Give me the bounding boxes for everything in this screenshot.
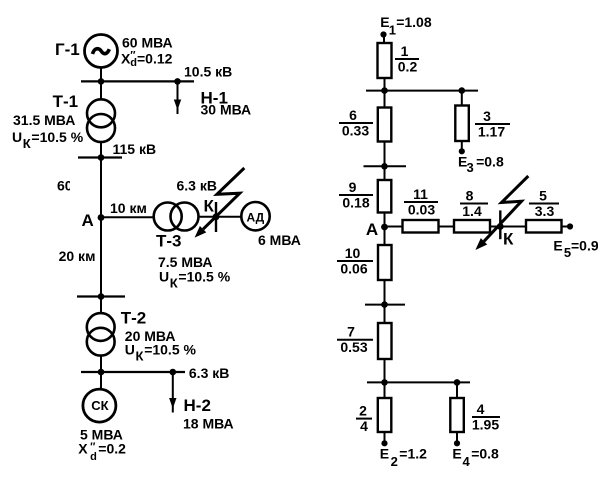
lightning bolt K arrowhead (right) — [475, 238, 487, 250]
svg-text:d: d — [90, 451, 97, 463]
value label 4/1.95 — [472, 401, 499, 433]
wire node A to transformer T-3 (10 km line) — [101, 216, 154, 218]
fraction bar 7/0.53 — [337, 339, 373, 341]
short-circuit point K tick (right) — [499, 210, 501, 239]
wire T-2 to bus 6.3kV — [100, 356, 102, 373]
source label E1=1.08 — [380, 14, 432, 38]
value label 6/0.33 — [342, 107, 369, 139]
fraction bar 1/0.2 — [395, 58, 419, 60]
junction dot bus/element3 — [459, 87, 466, 94]
wire element 3 to terminal E3 — [461, 141, 463, 152]
junction dot bus1/load H-1 — [174, 78, 181, 85]
source label E5=0.9 — [553, 238, 598, 261]
wire bus to element 6 — [384, 91, 386, 109]
svg-text:4: 4 — [477, 401, 485, 417]
svg-text:U: U — [12, 129, 22, 145]
svg-text:=0.12: =0.12 — [137, 51, 173, 67]
svg-text:10 км: 10 км — [110, 200, 147, 216]
wire resistor 1 to bus — [384, 77, 386, 92]
svg-text:=10.5 %: =10.5 % — [178, 268, 230, 284]
junction dot fault K (left) — [213, 213, 220, 220]
impedance element 4 (1.95) — [450, 398, 464, 432]
terminal dot E5 — [567, 223, 573, 229]
terminal dot E3 — [459, 148, 465, 154]
transformer T-2 upper circle — [87, 313, 115, 341]
wire element 7 to bottom bus — [384, 359, 386, 383]
svg-text:18 МВА: 18 МВА — [183, 416, 234, 432]
svg-text:11: 11 — [413, 186, 428, 202]
lightning bolt K (right) — [484, 176, 528, 241]
svg-text:6 МВА: 6 МВА — [258, 232, 301, 248]
svg-text:E: E — [553, 238, 562, 254]
node A junction dot (right) — [381, 224, 388, 231]
svg-text:К: К — [136, 349, 144, 364]
svg-text:=0.8: =0.8 — [476, 153, 504, 169]
lightning bolt K arrowhead (left) — [195, 226, 207, 238]
svg-text:2: 2 — [359, 403, 367, 419]
svg-text:1.17: 1.17 — [478, 124, 505, 140]
svg-text:9: 9 — [349, 179, 357, 195]
svg-text:115 кВ: 115 кВ — [113, 141, 157, 157]
load H-2 arrow shaft — [172, 372, 174, 413]
wire bus2 to synchronous condenser SK — [100, 372, 102, 389]
svg-text:=0.8: =0.8 — [471, 446, 499, 462]
junction dot bottom bus/element2 — [381, 379, 388, 386]
fraction bar 9/0.18 — [339, 194, 373, 196]
bus 6.3 kV lower — [81, 371, 185, 373]
svg-text:d: d — [130, 57, 137, 69]
svg-text:=10.5 %: =10.5 % — [144, 342, 196, 358]
svg-text:Т-1: Т-1 — [53, 92, 79, 111]
svg-text:К: К — [23, 136, 31, 151]
terminal dot E4 — [454, 440, 460, 446]
svg-text:10.5 кВ: 10.5 кВ — [184, 64, 232, 80]
transformer T-1 upper circle — [87, 99, 115, 127]
motor AD circle — [241, 202, 269, 230]
wire element 8 to element 5 (passes fault K) — [490, 226, 527, 228]
source label E2=1.2 — [380, 446, 427, 469]
junction dot fault K (right) — [497, 223, 504, 230]
fraction bar 6/0.33 — [339, 122, 373, 124]
bus 10.5 kV — [81, 80, 194, 82]
wire bus to element 3 — [461, 91, 463, 106]
wire generator to bus 10.5kV — [100, 68, 102, 83]
fraction bar 11/0.03 — [404, 201, 438, 203]
value label 11/0.03 — [408, 186, 435, 218]
transformer T-1 lower circle — [87, 114, 115, 142]
svg-text:Н-2: Н-2 — [184, 396, 211, 415]
transformer T-3 right circle — [171, 203, 199, 231]
source label E4=0.8 — [452, 446, 499, 469]
svg-text:30 МВА: 30 МВА — [201, 102, 252, 118]
bus tick lower right — [365, 304, 405, 306]
junction dot bus/element1 — [381, 87, 388, 94]
terminal dot E2 — [381, 440, 387, 446]
svg-text:U: U — [125, 342, 135, 358]
svg-text:=1.2: =1.2 — [399, 446, 427, 462]
svg-text:К: К — [204, 197, 215, 216]
svg-text:А: А — [366, 220, 378, 239]
svg-text:0.18: 0.18 — [342, 195, 369, 211]
wire element 6 to middle tick — [384, 141, 386, 181]
value label 1/0.2 — [398, 43, 418, 75]
svg-text:Г-1: Г-1 — [55, 40, 80, 59]
svg-text:0.06: 0.06 — [340, 261, 367, 277]
svg-text:4: 4 — [463, 454, 471, 469]
wire element 2 to terminal E2 — [384, 431, 386, 443]
svg-text:Т-3: Т-3 — [156, 232, 182, 251]
value Uk=10.5 % (T-2) — [125, 342, 197, 364]
impedance element 6 (0.33) — [378, 108, 392, 142]
wire tick to transformer T-2 — [100, 297, 102, 314]
svg-text:U: U — [159, 268, 169, 284]
svg-text:3: 3 — [467, 160, 474, 175]
wire node A to element 11 — [385, 226, 404, 228]
value label 10/0.06 — [340, 245, 367, 277]
wire element 11 to element 8 — [439, 226, 456, 228]
impedance element 7 (0.53) — [378, 323, 392, 359]
svg-text:3: 3 — [483, 108, 491, 124]
source label E3=0.8 — [458, 153, 504, 175]
terminal dot E1 — [380, 31, 386, 37]
fraction bar 8/1.4 — [460, 203, 488, 205]
svg-text:6: 6 — [349, 107, 357, 123]
impedance element 2 (4) — [378, 398, 392, 432]
svg-text:0.33: 0.33 — [342, 123, 369, 139]
impedance element 10 (0.06) — [378, 245, 392, 280]
wire element 5 to terminal E5 — [562, 226, 571, 228]
fraction bar 5/3.3 — [529, 203, 559, 205]
svg-text:10: 10 — [345, 245, 361, 261]
wire 20km line label segment is main vertical, bus tick lower — [77, 295, 125, 297]
svg-text:5: 5 — [539, 188, 547, 204]
wire bus to element 2 — [384, 382, 386, 399]
svg-text:0.53: 0.53 — [340, 339, 367, 355]
right bus lower — [367, 381, 470, 383]
wire element 4 to terminal E4 — [456, 431, 458, 443]
wire bus1 to transformer T-1 — [100, 81, 102, 99]
value label 2/4 — [359, 403, 368, 435]
value label 3/1.17 — [478, 108, 505, 140]
generator G-1 sine symbol — [93, 49, 110, 54]
svg-text:К: К — [170, 275, 178, 290]
generator G-1 circle — [85, 35, 118, 68]
svg-text:E: E — [380, 446, 389, 462]
svg-text:0.2: 0.2 — [398, 59, 418, 75]
value Uk=10.5 % (T-1) — [12, 129, 84, 151]
svg-text:2: 2 — [391, 454, 398, 469]
svg-text:=1.08: =1.08 — [396, 14, 432, 30]
svg-text:6.3 кВ: 6.3 кВ — [189, 365, 229, 381]
wire element 10 to lower tick — [384, 280, 386, 324]
value Uk=10.5 % (T-3) — [159, 268, 231, 290]
svg-text:20 км: 20 км — [59, 248, 96, 264]
svg-text:А: А — [82, 211, 94, 230]
svg-text:1.95: 1.95 — [472, 417, 499, 433]
value Xd''=0.12 — [121, 50, 173, 69]
svg-text:60 МВА: 60 МВА — [122, 35, 173, 51]
wire E1 to resistor 1 — [383, 35, 385, 45]
wire T-3 to motor AD — [198, 216, 241, 218]
transformer T-2 lower circle — [87, 328, 115, 356]
svg-text:7: 7 — [347, 324, 355, 340]
bus tick 115 kV — [78, 156, 122, 158]
svg-text:0.03: 0.03 — [408, 202, 435, 218]
impedance element 8 (1.4) — [454, 220, 490, 233]
junction dot bus1/generator — [98, 78, 105, 85]
node A junction dot (left) — [98, 214, 105, 221]
junction dot lower tick right — [381, 301, 388, 308]
svg-text:1.4: 1.4 — [462, 203, 482, 219]
wire line 115kV to lower bus tick (passes node A) — [100, 158, 102, 297]
svg-text:4: 4 — [360, 418, 368, 434]
svg-text:X: X — [78, 441, 88, 457]
junction dot bottom bus/element4 — [454, 379, 461, 386]
bus tick middle right — [364, 165, 407, 167]
junction dot lower tick — [98, 293, 105, 300]
value label 5/3.3 — [535, 188, 555, 220]
fraction bar 4/1.95 — [472, 416, 500, 418]
svg-text:E: E — [452, 446, 461, 462]
lightning bolt K (left) — [203, 168, 244, 229]
junction dot middle tick — [381, 163, 388, 170]
svg-text:31.5 МВА: 31.5 МВА — [13, 112, 75, 128]
svg-text:3.3: 3.3 — [535, 203, 555, 219]
junction dot bus2/load H-2 — [170, 369, 177, 376]
junction dot 115kV — [98, 154, 105, 161]
svg-text:8: 8 — [466, 188, 474, 204]
value label 9/0.18 — [342, 179, 369, 211]
fraction bar 10/0.06 — [337, 260, 373, 262]
svg-text:К: К — [503, 229, 514, 248]
svg-text:1: 1 — [401, 43, 409, 59]
svg-text:=0.9: =0.9 — [571, 238, 598, 254]
fraction bar 2/4 — [356, 418, 372, 420]
impedance element 3 (1.17) — [455, 106, 469, 142]
impedance element 9 (0.18) — [378, 180, 392, 213]
svg-text:1: 1 — [389, 23, 396, 38]
svg-text:=0.2: =0.2 — [98, 441, 126, 457]
svg-text:=10.5 %: =10.5 % — [31, 129, 83, 145]
svg-text:6.3 кВ: 6.3 кВ — [177, 178, 217, 194]
load H-1 arrow shaft — [177, 81, 179, 114]
svg-text:АД: АД — [247, 211, 265, 225]
right bus upper — [366, 90, 478, 92]
junction dot bus2/T-2 — [98, 369, 105, 376]
wire bus to element 4 — [456, 382, 458, 399]
svg-text:Т-2: Т-2 — [121, 309, 147, 328]
wire element 9 to node A — [384, 212, 386, 246]
impedance element 5 (3.3) — [526, 220, 562, 233]
impedance element 11 (0.03) — [403, 220, 439, 233]
load H-1 arrowhead — [174, 100, 181, 111]
short-circuit point K tick (left) — [215, 202, 217, 232]
transformer T-3 left circle — [154, 203, 182, 231]
wire T-1 to 115kV bus tick — [100, 142, 102, 158]
svg-text:СК: СК — [91, 398, 108, 413]
load H-2 arrowhead — [169, 398, 176, 409]
value label 7/0.53 — [340, 324, 367, 356]
value label 8/1.4 — [462, 188, 482, 220]
value Xd''=0.2 — [78, 441, 126, 463]
impedance element 1 (0.2) — [378, 43, 392, 78]
fraction bar 3/1.17 — [475, 123, 510, 125]
synchronous condenser SK circle — [83, 389, 116, 422]
